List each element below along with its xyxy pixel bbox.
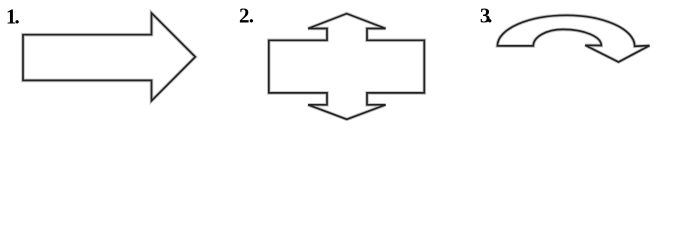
svg-text:2.: 2.	[239, 4, 254, 28]
svg-text:1.: 1.	[6, 5, 20, 29]
svg-text:3.: 3.	[480, 4, 492, 28]
